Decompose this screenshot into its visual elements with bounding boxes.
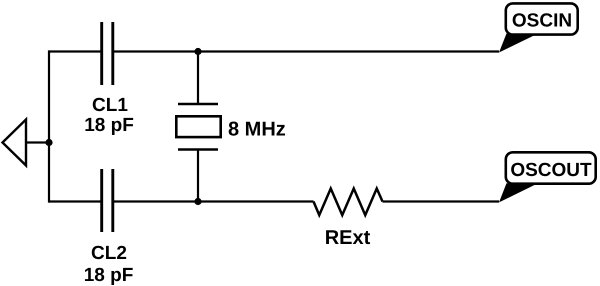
svg-text:RExt: RExt [325,227,371,249]
svg-text:18 pF: 18 pF [84,115,134,136]
svg-text:OSCIN: OSCIN [512,11,572,32]
svg-text:CL2: CL2 [91,243,127,264]
svg-text:8 MHz: 8 MHz [228,119,286,141]
svg-text:CL1: CL1 [92,95,128,116]
svg-text:18 pF: 18 pF [84,265,134,286]
svg-text:OSCOUT: OSCOUT [510,160,592,181]
